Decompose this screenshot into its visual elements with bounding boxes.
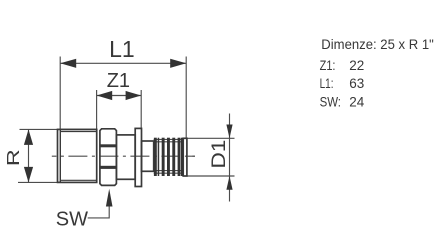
svg-text:SW: SW bbox=[56, 208, 88, 230]
svg-text:SW:: SW: bbox=[320, 94, 341, 109]
svg-text:Z1:: Z1: bbox=[320, 58, 336, 73]
svg-text:63: 63 bbox=[349, 76, 364, 91]
svg-text:L1: L1 bbox=[109, 36, 135, 62]
svg-text:Dimenze: 25 x R 1": Dimenze: 25 x R 1" bbox=[321, 36, 434, 52]
svg-text:24: 24 bbox=[349, 94, 365, 109]
svg-text:D1: D1 bbox=[209, 140, 230, 169]
svg-text:Z1: Z1 bbox=[107, 70, 130, 92]
svg-text:22: 22 bbox=[349, 58, 364, 73]
svg-text:L1:: L1: bbox=[320, 76, 334, 91]
svg-text:R: R bbox=[3, 149, 23, 166]
